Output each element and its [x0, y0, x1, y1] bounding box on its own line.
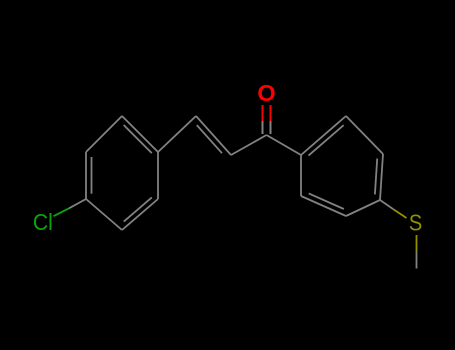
svg-text:Cl: Cl	[33, 209, 53, 235]
svg-text:O: O	[257, 80, 275, 106]
svg-text:S: S	[409, 209, 422, 236]
